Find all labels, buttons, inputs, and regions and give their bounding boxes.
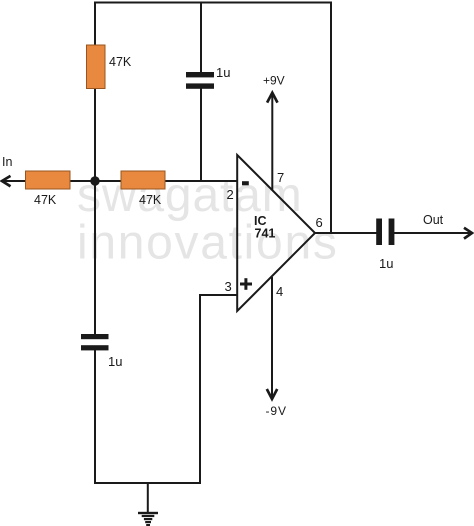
svg-text:4: 4 [276, 284, 283, 299]
U1 inverting input minus symbol [242, 181, 249, 185]
svg-text:3: 3 [225, 279, 232, 294]
wire top feedback rail [94, 2, 332, 4]
node A junction dot [90, 176, 99, 185]
capacitor C3 1u [376, 219, 394, 246]
wire output segment op-amp to C3 [314, 232, 377, 234]
svg-text:2: 2 [227, 187, 234, 202]
input arrow [2, 176, 11, 186]
wire output segment C3 to arrow [394, 232, 471, 234]
svg-text:6: 6 [316, 215, 323, 230]
svg-text:innovations: innovations [77, 217, 339, 270]
svg-text:1u: 1u [379, 256, 393, 271]
output arrow head [464, 228, 472, 239]
svg-text:1u: 1u [108, 354, 122, 369]
U1 name label IC 741 [254, 214, 275, 241]
capacitor C2 1u [81, 334, 109, 350]
resistor R3 47K [121, 171, 165, 189]
svg-text:47K: 47K [139, 193, 162, 207]
svg-text:47K: 47K [109, 55, 132, 69]
capacitor C1 1u [186, 72, 214, 89]
wire pin 7 to +9V [271, 93, 273, 191]
U1 non-inverting input plus symbol [240, 278, 252, 290]
wire bottom rail [94, 482, 201, 484]
+9V supply arrow head [267, 93, 277, 103]
svg-text:1u: 1u [216, 65, 230, 80]
-9V supply arrow head [267, 389, 277, 399]
svg-text:-9V: -9V [266, 404, 287, 418]
ground [138, 483, 158, 526]
wire input net y181 [2, 180, 237, 182]
wire C1 to inverting input net [200, 86, 202, 182]
wire C2 to bottom rail [94, 349, 96, 484]
svg-text:+9V: +9V [263, 74, 285, 88]
wire pin 4 to -9V [271, 277, 273, 399]
svg-text:7: 7 [277, 170, 284, 185]
svg-text:swagatam: swagatam [77, 169, 303, 222]
svg-text:47K: 47K [34, 193, 57, 207]
op-amp U1 triangle [237, 155, 315, 311]
resistor R2 47K [26, 171, 71, 189]
svg-text:Out: Out [423, 213, 444, 227]
wire left branch vertical through R1 down to C2 [94, 2, 96, 337]
wire C1 top feed [200, 2, 202, 76]
svg-text:In: In [2, 155, 12, 169]
wire feedback vertical drop [330, 2, 332, 234]
watermark [77, 169, 339, 270]
wire pin 3 to ground rail [200, 295, 237, 484]
resistor R1 47K [87, 45, 106, 89]
svg-text:741: 741 [255, 227, 276, 241]
